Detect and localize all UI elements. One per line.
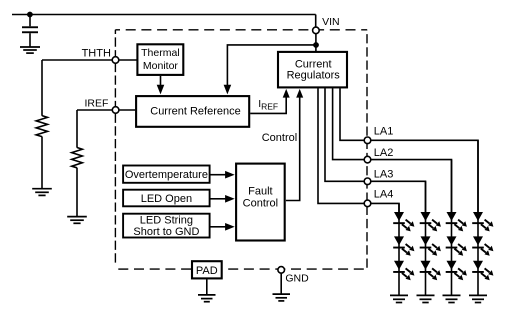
svg-text:Monitor: Monitor [143, 60, 179, 72]
wire GND pin to ground [280, 273, 282, 294]
LED D23 (string 2) [420, 261, 441, 280]
pin VIN [313, 27, 320, 34]
wire LA2 from regulators [333, 88, 365, 159]
LED D22 (string 2) [420, 236, 441, 255]
wire LA3 to LED string 2 [371, 181, 426, 213]
block Thermal Monitor [137, 44, 183, 75]
block Overtemperature [123, 166, 210, 183]
wire Control fault control to current regulators [286, 98, 300, 201]
capacitor C1 (input) [22, 15, 38, 47]
label LA2 [374, 147, 394, 159]
wire IREF down to resistor [76, 110, 78, 148]
wire PAD to ground [206, 279, 208, 294]
label VIN [322, 16, 340, 28]
block Current Regulators [278, 52, 347, 88]
svg-text:PAD: PAD [196, 265, 218, 277]
label LA1 [374, 125, 394, 137]
wire IREF pin to current reference and to resistor [77, 109, 135, 111]
svg-text:Regulators: Regulators [287, 70, 341, 82]
arrowhead overtemperature into fault control [225, 171, 235, 179]
svg-text:IREF: IREF [84, 98, 108, 110]
block Current Reference [136, 96, 249, 127]
resistor R1 (THTH) [36, 116, 47, 137]
svg-text:Current Reference: Current Reference [150, 106, 241, 118]
LED D21 (string 2) [420, 212, 441, 231]
LED D33 (string 3) [446, 261, 467, 280]
wire LED string 1 (LA4) vertical x=399 [398, 203, 400, 295]
pin IREF [112, 107, 119, 114]
block LED Open [123, 190, 210, 207]
svg-text:Current: Current [295, 58, 332, 70]
wire LED open to fault control [210, 198, 226, 200]
arrowhead into current reference (from VIN branch) [224, 85, 232, 95]
svg-text:THTH: THTH [82, 47, 111, 59]
pin THTH [112, 57, 119, 64]
LED D11 (string 1) [393, 212, 414, 231]
svg-text:Control: Control [262, 132, 297, 144]
wire LA3 from regulators [325, 88, 365, 181]
ground (GND pin) [273, 294, 291, 301]
block Fault Control [236, 164, 285, 241]
label LA4 [374, 189, 394, 201]
svg-text:Thermal: Thermal [141, 47, 180, 59]
ground (THTH resistor) [32, 189, 52, 196]
LED D13 (string 1) [393, 261, 414, 280]
svg-text:GND: GND [285, 273, 309, 285]
wire IREF signal current reference to current regulators [250, 97, 286, 113]
LED D12 (string 1) [393, 236, 414, 255]
pin LA3 [364, 178, 371, 185]
wire THTH down to resistor [41, 60, 43, 116]
ground (PAD) [198, 295, 216, 302]
pin GND [278, 267, 285, 274]
wire LED string 2 (LA3) vertical x=425.5 [425, 181, 427, 295]
LED D42 (string 4) [472, 236, 493, 255]
label GND [285, 273, 309, 285]
wire LED string short to fault control [210, 226, 226, 228]
svg-text:Control: Control [243, 198, 278, 210]
wire LA1 from regulators [340, 88, 365, 140]
ground (LED string 4) [469, 295, 487, 302]
wire VIN to current regulators [315, 34, 317, 51]
svg-text:LA1: LA1 [374, 125, 394, 137]
label Control [262, 132, 297, 144]
wire top supply rail [12, 14, 316, 16]
svg-text:Short to GND: Short to GND [133, 226, 199, 238]
resistor R2 (IREF) [72, 148, 83, 168]
arrowhead LED open into fault control [225, 195, 235, 203]
svg-text:LED Open: LED Open [141, 193, 192, 205]
wire LA1 to LED string 4 [371, 140, 478, 213]
pin LA1 [364, 137, 371, 144]
dashed IC boundary box [115, 30, 367, 269]
wire VIN branch to current reference [227, 45, 316, 86]
label IREF signal [258, 98, 278, 111]
arrowhead LED string short into fault control [225, 223, 235, 231]
wire LED string 4 (LA1) vertical x=478 [477, 140, 479, 295]
wire THTH pin to thermal monitor and to resistor [42, 59, 137, 61]
wire overtemperature to fault control [210, 174, 226, 176]
ground (LED string 3) [443, 295, 461, 302]
ground (IREF resistor) [67, 217, 87, 224]
arrowhead into current regulators (Control) [296, 89, 303, 98]
LED D32 (string 3) [446, 236, 467, 255]
ground (input cap) [20, 47, 40, 53]
LED D41 (string 4) [472, 212, 493, 231]
label LA3 [374, 169, 394, 181]
junction dot VIN branch [313, 42, 319, 48]
svg-text:Fault: Fault [248, 185, 272, 197]
ground (LED string 2) [417, 295, 435, 302]
wire LA4 from regulators [318, 88, 365, 203]
pin LA2 [364, 156, 371, 163]
wire VIN drop from rail [315, 15, 317, 28]
label THTH [82, 47, 111, 59]
block LED String Short to GND [123, 214, 210, 238]
wire R1 to ground [41, 137, 43, 189]
block PAD [192, 261, 222, 278]
LED D31 (string 3) [446, 212, 467, 231]
wire R2 to ground [76, 168, 78, 217]
junction dot at input cap [27, 12, 33, 18]
wire LA2 to LED string 3 [371, 160, 452, 213]
wire thermal monitor to current reference [160, 76, 162, 86]
ground (LED string 1) [390, 295, 408, 302]
pin LA4 [364, 200, 371, 207]
svg-text:LA3: LA3 [374, 169, 394, 181]
svg-text:LA2: LA2 [374, 147, 394, 159]
LED D43 (string 4) [472, 261, 493, 280]
arrowhead into current reference (from thermal monitor) [157, 85, 165, 95]
wire LA4 to LED string 1 [371, 203, 399, 213]
wire LED string 3 (LA2) vertical x=451.5 [451, 160, 453, 296]
svg-text:Overtemperature: Overtemperature [125, 169, 208, 181]
label IREF [84, 98, 108, 110]
svg-text:VIN: VIN [322, 16, 340, 28]
arrowhead into current regulators (IREF signal) [283, 89, 290, 98]
svg-text:LA4: LA4 [374, 189, 394, 201]
